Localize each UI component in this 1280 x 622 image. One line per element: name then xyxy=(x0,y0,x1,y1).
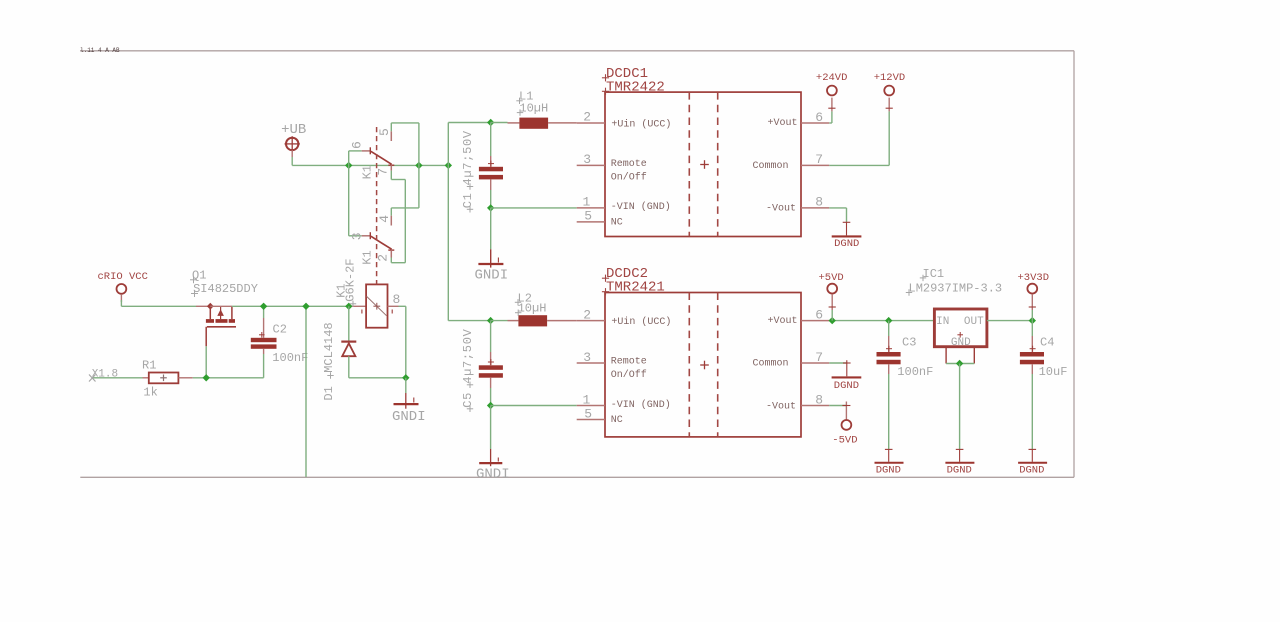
svg-text:+Vout: +Vout xyxy=(767,118,797,129)
svg-text:+Uin (UCC): +Uin (UCC) xyxy=(611,118,671,130)
svg-text:SI4825DDY: SI4825DDY xyxy=(193,282,258,296)
wire IC1 GND to DGND xyxy=(959,364,961,450)
DCDC1 pin stubs right xyxy=(801,122,829,124)
svg-text:7: 7 xyxy=(815,350,823,365)
svg-text:1k: 1k xyxy=(143,386,157,400)
svg-text:K1: K1 xyxy=(361,250,375,264)
ground DGND-A xyxy=(832,222,862,237)
svg-text:-Vout: -Vout xyxy=(766,204,796,215)
svg-text:C1: C1 xyxy=(461,192,475,208)
svg-text:K1: K1 xyxy=(361,165,375,179)
supply symbol +3V3D xyxy=(1027,284,1037,321)
svg-text:GND: GND xyxy=(951,337,971,349)
svg-text:10uF: 10uF xyxy=(1039,365,1068,379)
svg-text:OUT: OUT xyxy=(964,316,984,328)
svg-text:Remote: Remote xyxy=(611,357,647,368)
wire cRIO VCC to Q1 source xyxy=(120,300,122,306)
svg-text:3: 3 xyxy=(349,232,364,240)
ground GNDI-2 xyxy=(478,208,503,268)
svg-text:7: 7 xyxy=(375,168,390,176)
frame top line xyxy=(80,50,1074,52)
svg-text:NC: NC xyxy=(611,415,623,426)
junction contact common xyxy=(345,162,352,169)
wire C1 to DCDC1 pin1 xyxy=(491,207,577,209)
junction IC1 GND xyxy=(956,360,963,367)
svg-text:TMR2422: TMR2422 xyxy=(606,79,665,95)
svg-text:Common: Common xyxy=(752,359,788,370)
junction to C1/DCDC2 xyxy=(445,162,452,169)
svg-text:-VIN (GND): -VIN (GND) xyxy=(611,399,671,411)
voltage regulator IC1 LM2937IMP-3.3 xyxy=(934,309,987,347)
svg-text:+UB: +UB xyxy=(281,122,306,138)
svg-text:1: 1 xyxy=(582,392,590,407)
svg-text:On/Off: On/Off xyxy=(611,172,647,184)
svg-text:C2: C2 xyxy=(273,323,287,337)
wire +UB to relay junction xyxy=(291,157,293,165)
junction C5 bottom xyxy=(487,402,494,409)
svg-text:5: 5 xyxy=(377,128,392,136)
svg-text:l.11 4 A AB: l.11 4 A AB xyxy=(80,47,120,54)
svg-text:DGND: DGND xyxy=(834,380,859,392)
svg-text:100nF: 100nF xyxy=(897,365,933,379)
svg-text:-VIN (GND): -VIN (GND) xyxy=(611,201,671,213)
junction C5 top xyxy=(487,317,494,324)
svg-text:2: 2 xyxy=(583,110,591,125)
wire pin6 to +24VD xyxy=(829,122,832,124)
wire pin8 to -5VD xyxy=(829,405,846,407)
svg-text:GNDI: GNDI xyxy=(475,267,509,283)
svg-text:GNDI: GNDI xyxy=(392,409,426,425)
wire D1 to GNDI junction xyxy=(348,356,350,378)
svg-text:DGND: DGND xyxy=(947,464,972,476)
wire R1 to gate junction to C2 bottom xyxy=(193,377,264,379)
svg-text:C3: C3 xyxy=(902,336,916,350)
svg-text:+24VD: +24VD xyxy=(816,72,848,84)
frame bottom line xyxy=(80,476,1074,478)
wire coil pin8 down to GNDI junction xyxy=(399,305,406,307)
relay contact K1 6-7-5 xyxy=(349,131,395,170)
wire pin8 to DGND-A xyxy=(829,207,846,209)
svg-text:4µ7;50V: 4µ7;50V xyxy=(461,130,475,185)
svg-text:3: 3 xyxy=(583,350,591,365)
svg-text:IC1: IC1 xyxy=(923,267,945,281)
junction main wire / D1 / coil xyxy=(345,303,352,310)
svg-text:6: 6 xyxy=(815,307,823,322)
svg-text:DGND: DGND xyxy=(1019,464,1044,476)
wire Q1 gate to R1 net xyxy=(205,346,207,378)
DCDC2 pin stubs left xyxy=(577,320,605,322)
junction C1 bottom xyxy=(487,204,494,211)
svg-text:2: 2 xyxy=(583,307,591,322)
relay coil K1 G6K-2F xyxy=(352,284,399,327)
svg-text:C4: C4 xyxy=(1040,336,1054,350)
wire pin6 to +5VD junction and IC1 IN xyxy=(829,320,933,322)
supply symbol +UB xyxy=(285,136,300,157)
svg-text:X1.8: X1.8 xyxy=(92,369,118,381)
svg-text:+12VD: +12VD xyxy=(874,72,906,84)
transistor Q1 SI4825DDY xyxy=(206,303,236,347)
svg-text:4: 4 xyxy=(377,215,392,223)
svg-text:MCL4148: MCL4148 xyxy=(322,322,336,372)
svg-text:1: 1 xyxy=(582,195,590,210)
dc-dc converter DCDC2 TMR2421 box xyxy=(605,293,801,437)
wire cRIO net down to frame (off-sheet) xyxy=(305,306,307,477)
frame right line xyxy=(1073,51,1075,478)
junction C4 top xyxy=(1029,317,1036,324)
junction GNDI-1 xyxy=(402,374,409,381)
wire pin7 to pin2 xyxy=(390,171,392,180)
svg-text:TMR2421: TMR2421 xyxy=(606,280,665,296)
wire junction down to DCDC2 node xyxy=(447,165,449,320)
junction +5VD xyxy=(829,317,836,324)
wire junction up to C1/L1 node xyxy=(447,123,449,166)
svg-text:+3V3D: +3V3D xyxy=(1018,272,1050,284)
wire pin7 to +12VD xyxy=(829,164,889,166)
supply symbol +12VD xyxy=(884,86,894,112)
svg-text:6: 6 xyxy=(350,141,365,149)
svg-text:Remote: Remote xyxy=(611,159,647,170)
junction gate/R1 xyxy=(203,374,210,381)
svg-text:3: 3 xyxy=(583,152,591,167)
capacitor C2 xyxy=(251,306,277,378)
ground DGND under IC1 xyxy=(945,449,974,463)
svg-text:8: 8 xyxy=(815,195,823,210)
dc-dc converter U-DCDC1 TMR2422 box xyxy=(605,92,801,236)
wire to L2 xyxy=(491,320,508,322)
wire junction down to D1 xyxy=(348,306,350,340)
dashed relay linkage xyxy=(376,127,378,284)
ground GNDI-1 xyxy=(394,378,419,409)
DCDC1 pin stubs left xyxy=(577,164,605,166)
capacitor C4 xyxy=(1020,321,1044,450)
junction main/down wire xyxy=(302,303,309,310)
wire Q1 drain to C2 and K1 coil xyxy=(210,305,232,307)
svg-text:cRIO VCC: cRIO VCC xyxy=(98,271,148,283)
svg-text:On/Off: On/Off xyxy=(611,369,647,381)
svg-text:10µH: 10µH xyxy=(519,102,548,116)
svg-text:10µH: 10µH xyxy=(518,302,547,316)
svg-text:GNDI: GNDI xyxy=(476,466,510,482)
supply symbol +24VD xyxy=(827,86,837,112)
junction C1 top xyxy=(487,119,494,126)
svg-text:NC: NC xyxy=(611,217,623,228)
DCDC2 pin stubs right xyxy=(801,320,829,322)
ground DGND under C3 xyxy=(875,449,904,463)
inductor L1 10uH xyxy=(508,118,577,129)
svg-text:G6K-2F: G6K-2F xyxy=(343,258,357,301)
svg-text:DGND: DGND xyxy=(876,464,901,476)
resistor R1 xyxy=(143,373,193,384)
svg-text:+5VD: +5VD xyxy=(819,272,844,284)
svg-text:5: 5 xyxy=(584,209,592,224)
svg-text:DGND: DGND xyxy=(834,238,859,250)
svg-text:+Vout: +Vout xyxy=(767,316,797,327)
ground GNDI-3 xyxy=(479,406,502,467)
svg-text:100nF: 100nF xyxy=(272,351,308,365)
svg-text:+Uin (UCC): +Uin (UCC) xyxy=(611,316,671,328)
svg-text:C5: C5 xyxy=(461,392,475,408)
capacitor C3 xyxy=(877,321,901,450)
svg-text:2: 2 xyxy=(375,254,390,262)
svg-text:7: 7 xyxy=(815,152,823,167)
IC1 GND pins loop xyxy=(946,348,974,364)
ground DGND under C4 xyxy=(1018,449,1047,463)
junction C3 top xyxy=(885,317,892,324)
svg-text:Common: Common xyxy=(752,161,788,172)
svg-text:R1: R1 xyxy=(142,358,156,372)
svg-text:6: 6 xyxy=(815,110,823,125)
supply symbol cRIO VCC xyxy=(117,284,127,294)
supply symbol -5VD xyxy=(842,402,852,430)
wire to L1 xyxy=(491,122,508,124)
diode D1 MCL4148 xyxy=(341,342,356,357)
inductor L2 10uH xyxy=(508,315,577,326)
relay contact K1 3-2 xyxy=(349,165,395,257)
svg-text:D1: D1 xyxy=(322,386,336,400)
svg-text:-Vout: -Vout xyxy=(766,401,796,412)
svg-text:IN: IN xyxy=(936,316,949,328)
svg-text:-5VD: -5VD xyxy=(832,434,857,446)
ground DGND-B xyxy=(832,360,862,377)
svg-text:LM2937IMP-3.3: LM2937IMP-3.3 xyxy=(909,282,1003,296)
svg-text:8: 8 xyxy=(393,292,401,307)
svg-text:5: 5 xyxy=(584,406,592,421)
wire C5 to DCDC2 pin1 xyxy=(491,405,577,407)
junction contact vertical xyxy=(415,162,422,169)
wire IC1 OUT to +3V3D and C4 xyxy=(987,320,1032,322)
junction C2 top xyxy=(260,303,267,310)
svg-text:4µ7;50V: 4µ7;50V xyxy=(461,328,475,383)
net stub X1.8 xyxy=(92,377,143,379)
capacitor C5 xyxy=(479,321,503,406)
wire pin5 to vertical xyxy=(390,123,392,131)
wire pin7 to DGND-B xyxy=(829,362,847,364)
svg-text:8: 8 xyxy=(815,392,823,407)
supply symbol +5VD xyxy=(827,284,837,321)
wire vertical to pin4 xyxy=(391,207,419,209)
capacitor C1 xyxy=(479,123,503,208)
